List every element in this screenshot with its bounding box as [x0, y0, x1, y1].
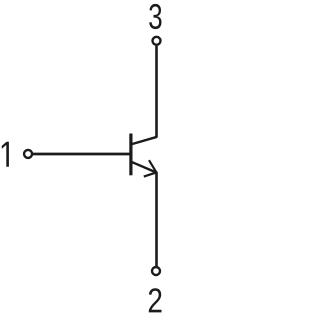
transistor Q1 emitter arrow barb upper [149, 160, 156, 172]
transistor Q1 emitter lead [131, 162, 157, 173]
transistor Q1 base bar [129, 134, 132, 176]
terminal pin 2 [152, 267, 160, 275]
wire collector vertical [155, 46, 158, 138]
wire base horizontal [33, 153, 131, 156]
pin label 3 [149, 4, 161, 29]
pin label 2 [149, 288, 162, 312]
terminal pin 3 [153, 37, 161, 45]
transistor Q1 collector lead [131, 137, 157, 145]
transistor Q1 emitter arrow barb lower [144, 172, 157, 176]
wire emitter vertical [155, 172, 158, 266]
terminal pin 1 [24, 150, 32, 158]
pin label 1 [2, 142, 9, 167]
